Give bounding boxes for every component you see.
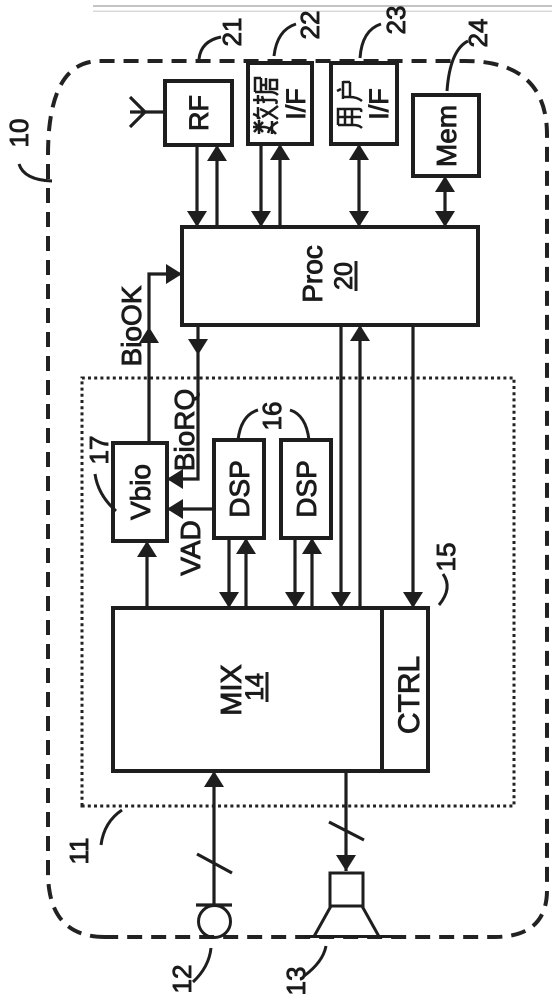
svg-text:Vbio: Vbio — [125, 464, 156, 520]
svg-text:12: 12 — [167, 965, 197, 994]
svg-text:17: 17 — [84, 436, 114, 465]
svg-text:BioRQ: BioRQ — [169, 389, 200, 471]
svg-text:VAD: VAD — [175, 520, 206, 576]
svg-text:DSP: DSP — [291, 460, 322, 518]
svg-text:DSP: DSP — [224, 460, 255, 518]
svg-text:20: 20 — [330, 262, 358, 290]
svg-text:22: 22 — [295, 11, 325, 40]
svg-text:10: 10 — [4, 119, 34, 148]
svg-text:16: 16 — [257, 402, 287, 431]
svg-text:21: 21 — [217, 18, 247, 47]
svg-text:I/F: I/F — [364, 88, 394, 120]
svg-text:15: 15 — [431, 543, 461, 572]
svg-text:RF: RF — [184, 95, 214, 131]
svg-text:Mem: Mem — [431, 105, 462, 167]
svg-text:BioOK: BioOK — [116, 285, 147, 366]
svg-text:11: 11 — [64, 838, 94, 865]
svg-text:CTRL: CTRL — [393, 656, 426, 734]
svg-text:14: 14 — [241, 673, 269, 701]
svg-text:24: 24 — [463, 19, 493, 48]
svg-text:Proc: Proc — [297, 245, 328, 303]
svg-text:23: 23 — [381, 6, 411, 35]
svg-text:I/F: I/F — [281, 88, 311, 120]
svg-text:13: 13 — [281, 967, 311, 996]
